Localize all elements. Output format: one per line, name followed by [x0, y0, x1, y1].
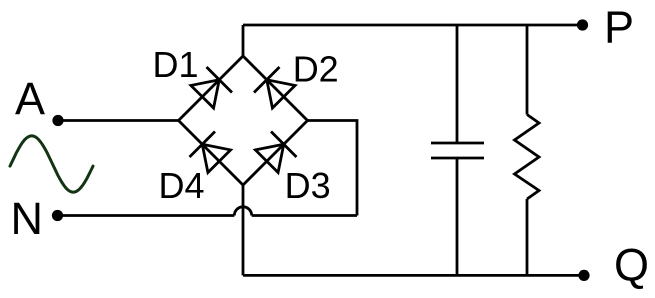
node P terminal dot [577, 19, 588, 30]
wire top rail to P [243, 24, 583, 27]
node A terminal dot [52, 115, 63, 126]
capacitor C bottom plate [431, 157, 484, 160]
svg-text:N: N [11, 193, 44, 244]
node N terminal dot [52, 210, 63, 221]
resistor R zigzag [515, 115, 540, 200]
diode D1 triangle [191, 80, 219, 108]
svg-text:D4: D4 [159, 165, 205, 206]
resistor R bottom lead [526, 199, 529, 275]
diode D3 cathode bar [271, 132, 296, 157]
wire hop over bottom apex wire [234, 207, 251, 216]
wire bridge top apex up [242, 25, 245, 56]
diode D4 triangle [202, 144, 230, 172]
wire bridge bottom apex down [242, 185, 245, 275]
wire bottom rail to Q [243, 274, 584, 277]
node Q terminal dot [578, 270, 589, 281]
wire N rail right segment [252, 214, 357, 217]
capacitor C bottom lead [456, 158, 459, 275]
diode D2 cathode bar [254, 67, 279, 92]
svg-text:D2: D2 [293, 49, 339, 90]
svg-text:D3: D3 [285, 165, 331, 206]
diode D1 cathode bar [207, 67, 232, 92]
diode D3 triangle [255, 144, 283, 172]
capacitor C top lead [456, 25, 459, 143]
AC source sine wave [10, 136, 93, 192]
svg-text:P: P [604, 2, 634, 53]
wire A to bridge left vertex [58, 119, 179, 122]
svg-text:A: A [15, 73, 45, 124]
wire N rail left segment [58, 214, 235, 217]
resistor R top lead [526, 25, 529, 115]
bridge diamond edges [179, 56, 308, 185]
svg-text:D1: D1 [153, 44, 199, 85]
capacitor C top plate [431, 142, 484, 145]
diode D2 triangle [267, 80, 295, 108]
diode D4 cathode bar [190, 132, 215, 157]
wire bridge right vertex to N rail [308, 121, 358, 216]
svg-text:Q: Q [614, 240, 649, 291]
